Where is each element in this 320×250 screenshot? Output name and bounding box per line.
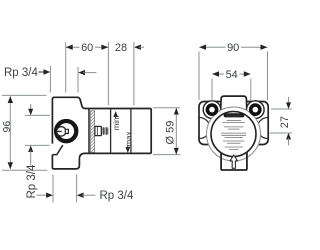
dim 90 arrow left	[199, 45, 206, 50]
svg-text:Rp 3/4: Rp 3/4	[100, 190, 134, 202]
dim 27 arrow up	[286, 133, 291, 140]
ring top extension line	[25, 114, 50, 116]
bottom port	[221, 153, 247, 171]
dim d59 top extension line	[153, 107, 180, 109]
bottom port arrow up	[230, 155, 238, 168]
svg-text:Rp 3/4: Rp 3/4	[26, 164, 38, 198]
max arrow	[126, 147, 131, 153]
dim 96 top extension line	[2, 94, 47, 96]
dim 60-28 extension line left (port centre)	[65, 42, 67, 93]
dim 90 extension line left	[198, 52, 200, 101]
svg-text:Ø 59: Ø 59	[164, 121, 176, 145]
dim 54 extension line left	[211, 79, 213, 102]
dim 27 arrow down	[288, 97, 290, 104]
svg-text:60: 60	[81, 42, 93, 54]
port ring black annulus	[56, 121, 76, 141]
dim 27 bottom extension line	[270, 132, 293, 134]
dim 54 extension line right	[250, 79, 252, 102]
threaded section hatch strip	[91, 111, 95, 153]
dim 27 top extension line	[271, 108, 292, 110]
wing body rounded rect	[199, 102, 268, 145]
divider line max	[130, 109, 132, 153]
min arrow	[113, 111, 118, 117]
ring bottom extension line	[25, 144, 50, 146]
dim 96 arrow bottom	[8, 162, 13, 169]
screw ring left	[207, 105, 216, 114]
svg-text:28: 28	[115, 42, 127, 54]
divider line min	[110, 109, 112, 153]
svg-text:96: 96	[1, 121, 13, 133]
divider line between flange and block	[88, 109, 90, 153]
label text lines	[221, 120, 247, 149]
dim d59 bottom extension line	[153, 154, 181, 156]
body chamfer bottom-left	[52, 145, 62, 154]
dim 54 line	[212, 73, 250, 75]
dim 96 line	[9, 96, 11, 168]
svg-text:90: 90	[227, 42, 239, 54]
screw head	[95, 126, 101, 135]
label circle	[211, 112, 256, 157]
dim 54 text	[224, 68, 240, 81]
bottom port arrow right	[77, 193, 84, 198]
port left extension line	[49, 66, 51, 93]
svg-text:27: 27	[279, 116, 291, 128]
hansgrohe pill	[224, 113, 245, 117]
dim 96 arrow top	[8, 96, 13, 103]
dim 28 arrow	[134, 45, 141, 50]
plug tab	[65, 129, 68, 133]
svg-text:hansgrohe: hansgrohe	[226, 114, 242, 118]
side port arc right	[257, 118, 268, 139]
dim 54 arrow right	[244, 71, 251, 76]
side port arc left	[199, 118, 210, 139]
svg-text:max.: max.	[124, 129, 133, 146]
svg-text:Rp 3/4: Rp 3/4	[4, 67, 38, 79]
bottom port left extension line	[52, 175, 54, 203]
dim 60-28 extension line mid	[107, 42, 109, 106]
dim d59 arrow down	[174, 148, 179, 155]
outer shield circle	[207, 107, 261, 161]
label arrow to port left	[39, 71, 46, 73]
bottom port right extension line	[76, 175, 78, 203]
dim 60 arrow right	[101, 45, 108, 50]
dim 60 arrow left	[66, 45, 73, 50]
body outline left flange	[52, 97, 89, 143]
screw thread ticks	[102, 127, 108, 135]
dim 54 arrow left	[212, 71, 219, 76]
ring dim arrow down	[30, 104, 32, 110]
plug circle inside ring	[57, 127, 66, 136]
dim 90 line	[199, 46, 267, 48]
screw boss left	[203, 101, 221, 119]
dim 96 bottom extension line	[2, 169, 48, 171]
screw ring right	[251, 105, 260, 114]
bottom port arrow left	[37, 194, 48, 196]
dim 90 text	[226, 42, 242, 55]
dim d59 arrow up	[174, 108, 179, 115]
plug slot line	[57, 130, 62, 132]
dim 60 line	[66, 46, 108, 48]
dim d59 line	[175, 108, 177, 154]
ring dim arrow up	[28, 145, 33, 152]
port right arrow	[78, 70, 85, 75]
dim 60-28 extension line right	[133, 42, 135, 106]
svg-text:min.: min.	[112, 115, 121, 130]
screw head inner line	[96, 126, 98, 135]
svg-text:54: 54	[226, 69, 238, 81]
screw boss right	[247, 101, 265, 119]
dim 60 text	[80, 42, 96, 55]
head block	[221, 96, 247, 113]
dim 90 extension line right	[267, 52, 269, 101]
port right extension line	[77, 67, 79, 93]
body outline bottom step	[52, 153, 89, 169]
body outline right block	[89, 109, 151, 154]
dim 90 arrow right	[261, 45, 268, 50]
